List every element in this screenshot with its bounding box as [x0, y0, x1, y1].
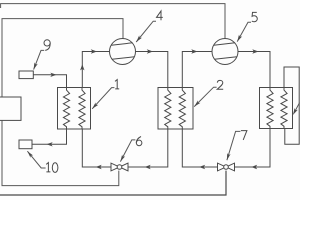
box 9: water inlet	[19, 71, 33, 79]
wire: valve 6 to HX1 right coil	[82, 129, 111, 167]
wire: HX3 right coil external loop	[284, 67, 299, 144]
label 9	[44, 40, 50, 46]
wire: HX2 left coil to valve 6	[128, 129, 168, 167]
flow arrow	[47, 142, 53, 146]
coil	[179, 88, 185, 130]
heat exchanger 2	[158, 88, 193, 130]
coil	[63, 88, 69, 130]
flow arrow up	[80, 64, 84, 70]
wire: box 9 to HX1 left coil	[33, 75, 66, 88]
valve 6	[111, 163, 120, 171]
label 1	[115, 80, 119, 89]
label 5	[252, 12, 257, 21]
label 4	[157, 11, 163, 20]
label 10	[46, 163, 50, 172]
flow arrow	[252, 49, 258, 53]
compressor 5	[212, 39, 238, 65]
wire: box 8 bottom to valve 6 bottom (line A)	[2, 120, 119, 185]
label 6	[136, 137, 141, 143]
box 8: left-edge vessel (clipped)	[0, 97, 21, 120]
coil	[281, 88, 287, 129]
wire: HX2 to compressor 5 suction	[182, 52, 211, 88]
coil	[165, 88, 171, 130]
label 3 leader (digit clipped)	[294, 103, 299, 113]
wire: outer top bus to compressor 5 top	[1, 4, 225, 39]
wire: HX3 left coil to valve 7	[235, 129, 271, 168]
heat exchanger 1	[58, 88, 91, 130]
label 7	[241, 131, 247, 140]
heat exchanger 3	[260, 88, 293, 129]
coil	[267, 88, 273, 129]
wire: HX1 left coil to box 10	[32, 129, 67, 144]
flow arrow	[50, 73, 56, 77]
flow arrow	[145, 165, 151, 169]
coil	[79, 88, 85, 130]
wire: HX1 to compressor 4 suction	[82, 52, 109, 88]
wire: bottom bus (line B) to valve 7 bottom	[0, 171, 226, 195]
flow arrow	[191, 49, 197, 53]
wire: valve 7 to HX2 right coil	[182, 129, 217, 167]
wire: inner top bus to compressor 4 top	[2, 19, 123, 97]
valve 7	[218, 163, 227, 171]
wire: compressor 4 discharge to HX2	[136, 52, 168, 88]
box 10: water outlet	[19, 140, 32, 149]
compressor 4	[110, 39, 136, 65]
wire: compressor 5 discharge to HX3	[238, 52, 270, 88]
flow arrow right	[91, 49, 97, 53]
flow arrow	[147, 49, 153, 53]
flow arrow	[96, 165, 102, 169]
flow arrow	[199, 165, 205, 169]
label 2	[217, 80, 223, 89]
flow arrow	[251, 165, 257, 169]
